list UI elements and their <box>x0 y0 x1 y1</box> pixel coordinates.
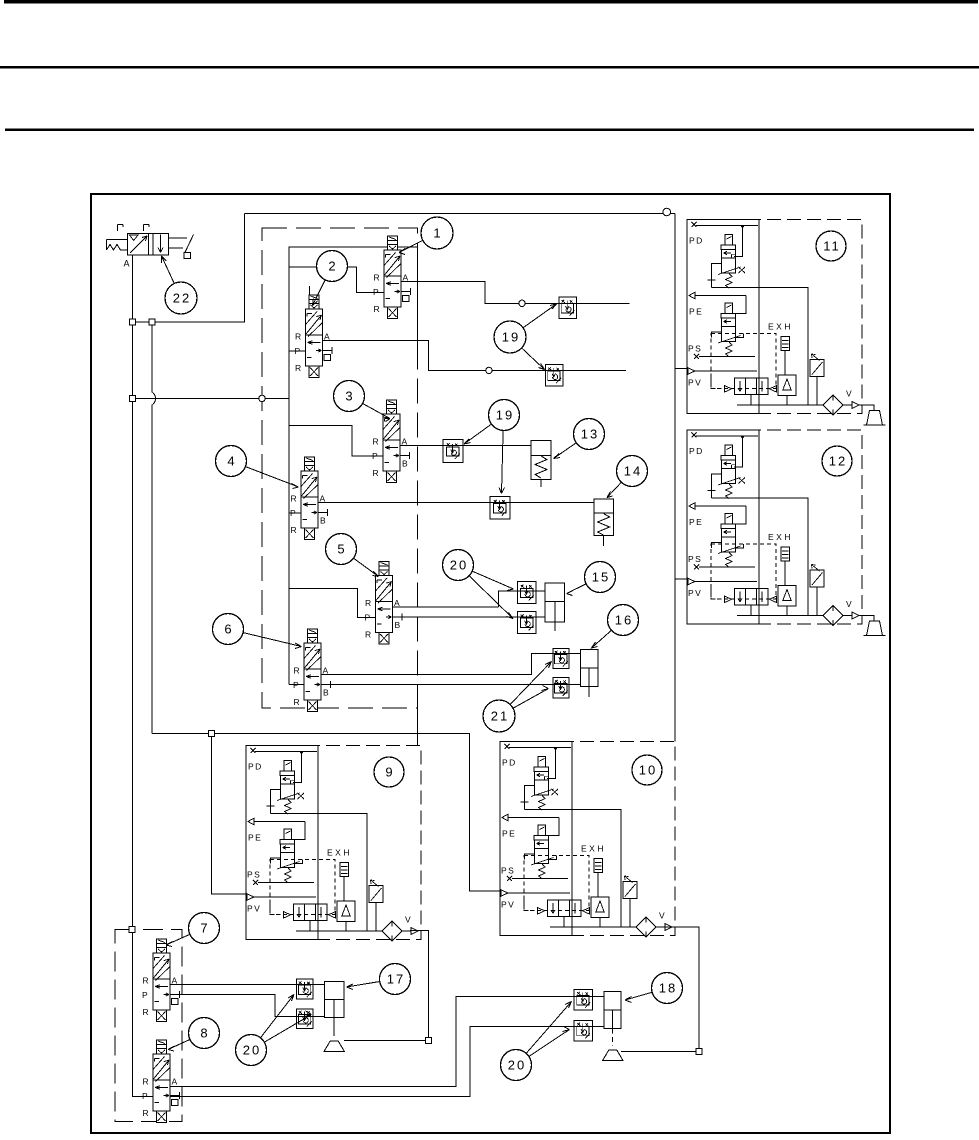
svg-text:9: 9 <box>385 765 392 780</box>
svg-text:A: A <box>124 259 130 269</box>
svg-text:4: 4 <box>227 454 234 469</box>
svg-text:18: 18 <box>659 981 677 996</box>
svg-text:8: 8 <box>200 1026 207 1041</box>
svg-text:20: 20 <box>508 1058 526 1073</box>
svg-text:1: 1 <box>433 226 440 241</box>
svg-text:13: 13 <box>581 427 599 442</box>
svg-text:3: 3 <box>345 389 352 404</box>
svg-text:12: 12 <box>829 454 847 469</box>
svg-text:15: 15 <box>592 570 610 585</box>
svg-text:19: 19 <box>496 408 514 423</box>
svg-text:5: 5 <box>337 542 344 557</box>
svg-text:6: 6 <box>224 622 231 637</box>
svg-text:17: 17 <box>387 972 405 987</box>
svg-text:22: 22 <box>173 291 191 306</box>
svg-text:11: 11 <box>823 239 841 254</box>
svg-text:20: 20 <box>450 558 468 573</box>
svg-text:16: 16 <box>615 613 633 628</box>
svg-text:21: 21 <box>491 709 509 724</box>
svg-text:7: 7 <box>200 921 207 936</box>
svg-text:10: 10 <box>639 763 657 778</box>
svg-text:20: 20 <box>243 1043 261 1058</box>
svg-text:19: 19 <box>502 330 520 345</box>
svg-text:2: 2 <box>328 259 335 274</box>
svg-text:14: 14 <box>624 464 642 479</box>
